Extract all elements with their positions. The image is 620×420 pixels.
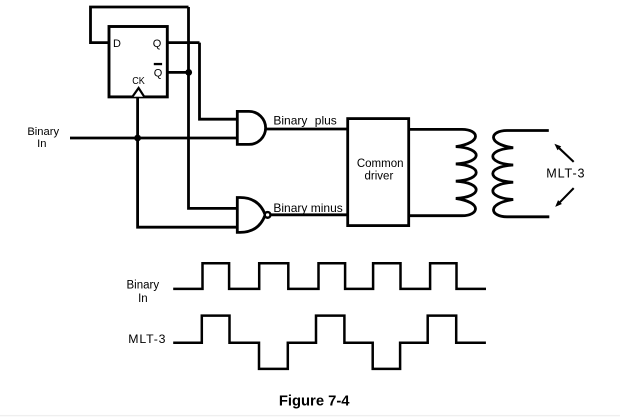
wire AND output Binary plus xyxy=(266,128,348,131)
flip-flop U1 clock edge triangle xyxy=(132,88,144,97)
svg-text:In: In xyxy=(138,293,148,305)
wire Q-bar output xyxy=(167,71,190,74)
wire Binary In horizontal to AND gate xyxy=(70,137,237,140)
common driver box U2 xyxy=(348,119,409,226)
label Binary In (waveform) xyxy=(126,279,159,305)
label Binary plus xyxy=(273,113,336,127)
inductor L2 secondary coil with output leads xyxy=(493,131,550,217)
label Common driver xyxy=(357,158,404,182)
wire feedback loop Q-bar to D xyxy=(91,7,189,43)
wire Q to AND gate top input xyxy=(200,43,238,120)
svg-text:Binary: Binary xyxy=(273,113,307,127)
svg-text:In: In xyxy=(37,138,46,150)
svg-text:Binary minus: Binary minus xyxy=(273,201,342,215)
svg-text:Binary: Binary xyxy=(27,126,59,138)
wire Binary In down to NOR bottom input xyxy=(138,138,238,227)
waveform Binary In xyxy=(173,263,486,289)
svg-text:Q: Q xyxy=(154,67,163,79)
wire Q-bar vertical net to NOR input xyxy=(189,7,238,208)
NOR gate G2 xyxy=(237,198,265,233)
svg-text:Figure 7-4: Figure 7-4 xyxy=(279,394,350,410)
svg-text:D: D xyxy=(113,38,121,50)
node junction on Q-bar net xyxy=(185,69,192,76)
bottom rule xyxy=(0,415,620,416)
svg-text:plus: plus xyxy=(315,113,337,127)
NOR gate G2 output bubble xyxy=(265,212,271,218)
wire Binary In to CK xyxy=(136,97,139,138)
flip-flop U1 body xyxy=(109,27,167,97)
flip-flop U1 pin label Q-bar xyxy=(154,63,163,80)
wire NOR output Binary minus xyxy=(272,213,348,216)
node junction Binary In xyxy=(134,135,141,142)
svg-text:Binary: Binary xyxy=(126,279,159,291)
svg-text:Q: Q xyxy=(153,38,162,50)
svg-text:MLT-3: MLT-3 xyxy=(546,166,585,180)
wire Q output xyxy=(167,41,199,44)
label Binary In xyxy=(27,126,59,150)
svg-text:CK: CK xyxy=(132,75,145,87)
svg-text:driver: driver xyxy=(365,170,394,182)
AND gate G1 xyxy=(237,111,265,144)
arrow to bottom MLT-3 lead xyxy=(555,188,574,207)
inductor L1 primary coil with driver leads xyxy=(409,129,477,215)
arrow to top MLT-3 lead xyxy=(554,144,573,162)
svg-text:MLT-3: MLT-3 xyxy=(128,332,166,346)
svg-text:Common: Common xyxy=(357,158,404,170)
waveform MLT-3 xyxy=(173,316,486,369)
